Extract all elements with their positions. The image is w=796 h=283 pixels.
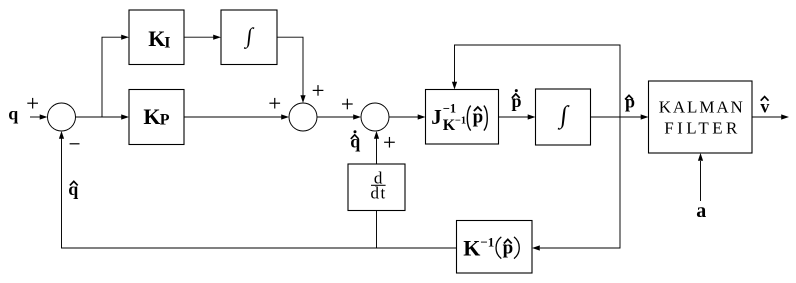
svg-text:I: I bbox=[164, 34, 170, 51]
block KP bbox=[129, 90, 184, 145]
label p-hat-dot bbox=[511, 89, 521, 111]
wire K inverse output left along bottom then up to S1 bbox=[59, 131, 457, 248]
block integrator 2 bbox=[536, 89, 591, 145]
wire branch up to KI bbox=[102, 35, 129, 117]
svg-text:K: K bbox=[148, 26, 165, 51]
wire integrator 2 to Kalman filter bbox=[591, 114, 649, 119]
svg-text:K: K bbox=[463, 236, 480, 261]
svg-text:p: p bbox=[625, 92, 635, 112]
wire KP to S2 bbox=[184, 114, 289, 119]
svg-text:J: J bbox=[431, 105, 442, 129]
label q-hat-dot at S3 bottom input bbox=[350, 130, 360, 151]
label KI bbox=[148, 26, 170, 51]
wire S1 output to KP bbox=[76, 114, 130, 119]
label KALMAN FILTER bbox=[659, 98, 745, 138]
wire integrator 1 output down into S2 top bbox=[277, 37, 306, 103]
label KP bbox=[143, 104, 169, 129]
label K inverse of p-hat bbox=[463, 234, 519, 260]
wire q input arrow into summing junction S1 bbox=[30, 114, 48, 119]
plus sign at S1 input bbox=[27, 98, 38, 109]
svg-text:−1: −1 bbox=[443, 102, 456, 116]
label J inverse K inverse of p-hat bbox=[431, 102, 487, 135]
block J inverse of K inverse bbox=[426, 90, 499, 145]
svg-text:P: P bbox=[160, 112, 170, 129]
wire KI to integrator 1 bbox=[184, 35, 221, 40]
svg-text:dt: dt bbox=[370, 184, 386, 203]
svg-text:q: q bbox=[8, 104, 18, 124]
label p-hat on output line bbox=[625, 92, 635, 112]
block ddt bbox=[348, 164, 405, 211]
svg-text:FILTER: FILTER bbox=[664, 119, 740, 138]
svg-text:−1: −1 bbox=[455, 115, 466, 126]
fraction bar bbox=[371, 184, 386, 186]
svg-text:K: K bbox=[143, 104, 160, 129]
plus sign at S3 bottom input bbox=[384, 137, 395, 148]
label a bbox=[696, 200, 706, 222]
wire S2 to S3 bbox=[317, 114, 361, 119]
plus sign at S2 top input bbox=[313, 85, 324, 96]
wire Kalman filter output bbox=[752, 114, 789, 119]
block K inverse bbox=[457, 221, 533, 274]
summing junction S3 bbox=[361, 103, 389, 131]
label integral 2 bbox=[557, 102, 570, 130]
svg-text:p: p bbox=[503, 238, 514, 259]
wire J to integrator 2 bbox=[499, 114, 536, 119]
node q input label bbox=[8, 104, 18, 124]
label q-hat on left feedback bbox=[68, 179, 78, 199]
summing junction S1 bbox=[48, 103, 76, 131]
wire S3 to block J bbox=[389, 114, 426, 119]
block integrator 1 bbox=[221, 10, 277, 65]
svg-text:−1: −1 bbox=[480, 234, 494, 249]
wire bottom feedback from p-hat node into K inverse block bbox=[532, 117, 620, 251]
block Kalman filter bbox=[649, 81, 753, 153]
wire a input into Kalman filter bottom bbox=[698, 153, 703, 201]
minus sign at S1 feedback input bbox=[70, 143, 80, 145]
plus sign at S3 left input bbox=[342, 99, 353, 110]
block KI bbox=[129, 10, 184, 65]
label v-hat bbox=[760, 96, 769, 116]
svg-text:p: p bbox=[473, 107, 484, 128]
summing junction S2 bbox=[289, 103, 317, 131]
wire branch up from bottom feedback into ddt block bbox=[376, 211, 378, 249]
wire top feedback from p-hat node into J top bbox=[452, 45, 620, 117]
svg-text:K: K bbox=[443, 117, 456, 134]
label d over dt fraction bbox=[370, 169, 386, 203]
wire ddt output up into S3 bbox=[374, 131, 379, 164]
svg-text:a: a bbox=[696, 200, 706, 222]
svg-text:KALMAN: KALMAN bbox=[659, 98, 745, 117]
label integral 1 bbox=[243, 23, 256, 49]
plus sign at S2 left input bbox=[269, 98, 280, 109]
